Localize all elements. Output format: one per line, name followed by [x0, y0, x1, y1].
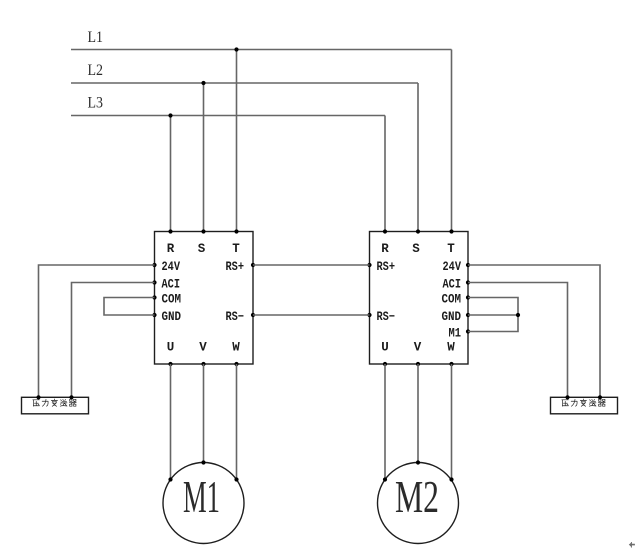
node U2 pin W [449, 362, 453, 366]
node U2 pin T [449, 229, 453, 233]
node U1 pin V [201, 362, 205, 366]
wire U1 pin U to motor M1 [170, 364, 172, 480]
wire L2 [71, 82, 418, 84]
wire L1 to U1 pin T [236, 50, 238, 232]
node U2 pin U [383, 362, 387, 366]
pin label RS+ (U1) [226, 260, 245, 274]
node U1 pin RS- [251, 313, 255, 317]
node U1 pin T [234, 229, 238, 233]
label 压 (PT1) [33, 400, 40, 406]
node U2 pin RS- [367, 313, 371, 317]
pin label U (U2) [381, 341, 389, 355]
wire L3 to U2 pin R [384, 116, 386, 232]
svg-text:S: S [198, 242, 206, 256]
node M2 terminal U [383, 477, 387, 481]
wire U1 ACI to PT1 [72, 283, 155, 398]
node U1 pin U [168, 362, 172, 366]
node U2 pin R [383, 229, 387, 233]
svg-text:24V: 24V [443, 260, 462, 274]
node U1 pin ACI [152, 280, 156, 284]
label 器 (PT2) [598, 399, 605, 406]
pressure transmitter PT1 body [22, 397, 89, 414]
wire L1 to U2 pin T [451, 50, 453, 232]
pin label RS- (U1) [226, 310, 245, 324]
pin label W (U1) [232, 341, 240, 355]
motor M1 body [163, 463, 244, 544]
svg-text:L3: L3 [88, 95, 104, 112]
pin label RS- (U2) [377, 310, 396, 324]
pin label 24V (U1) [162, 260, 181, 274]
node U1 pin R [168, 229, 172, 233]
wire L3 [71, 115, 385, 117]
node L3/R1 junction [168, 113, 172, 117]
node U1 pin GND [152, 313, 156, 317]
svg-text:V: V [199, 341, 207, 355]
wire L2 to U1 pin S [203, 83, 205, 232]
svg-text:W: W [447, 341, 455, 355]
label 力 (PT2) [571, 399, 577, 406]
pin label COM (U1) [162, 293, 182, 307]
pin label R (U2) [381, 242, 389, 256]
pin label ACI (U1) [162, 278, 181, 292]
node U2 pin M1 [466, 329, 470, 333]
svg-text:RS+: RS+ [377, 260, 396, 274]
svg-text:RS−: RS− [226, 310, 245, 324]
label 力 (PT1) [42, 399, 48, 406]
svg-text:S: S [412, 242, 420, 256]
label M2 [395, 471, 439, 522]
wire U2 COM jumper [468, 298, 518, 332]
motor M2 body [378, 463, 459, 544]
inverter U2 body [370, 232, 469, 365]
pin label R (U1) [167, 242, 175, 256]
node U2 pin COM [466, 295, 470, 299]
svg-text:RS+: RS+ [226, 260, 245, 274]
svg-text:T: T [232, 242, 240, 256]
node U1 pin COM [152, 295, 156, 299]
svg-text:M1: M1 [449, 327, 462, 341]
svg-text:M2: M2 [395, 471, 439, 522]
node PT2 24V terminal [598, 395, 602, 399]
node PT2 ACI terminal [565, 395, 569, 399]
svg-text:COM: COM [442, 293, 462, 307]
label 变 (PT2) [580, 399, 586, 406]
label 器 (PT1) [69, 399, 76, 406]
node U1 pin W [234, 362, 238, 366]
node M1 terminal W [234, 477, 238, 481]
pin label T (U2) [447, 242, 455, 256]
svg-text:24V: 24V [162, 260, 181, 274]
node M1 terminal V [201, 460, 205, 464]
node U2 pin 24V [466, 263, 470, 267]
node PT1 ACI terminal [69, 395, 73, 399]
svg-text:W: W [232, 341, 240, 355]
wire U2 ACI to PT2 [468, 283, 568, 398]
wire L3 to U1 pin R [170, 116, 172, 232]
wire L1 [71, 49, 452, 51]
node U2 pin ACI [466, 280, 470, 284]
node M1 terminal U [168, 477, 172, 481]
label 压 (PT2) [562, 400, 569, 406]
pin label V (U2) [414, 341, 422, 355]
pin label GND (U2) [442, 310, 462, 324]
inverter U1 body [155, 232, 254, 365]
wire RS- link U1 to U2 [253, 314, 370, 316]
pin label S (U1) [198, 242, 206, 256]
wire U2 pin U to motor M2 [384, 364, 386, 480]
svg-text:R: R [167, 242, 175, 256]
label L3 [88, 95, 104, 112]
wire U2 pin V to motor M2 [417, 364, 419, 463]
pin label V (U1) [199, 341, 207, 355]
svg-text:COM: COM [162, 293, 182, 307]
pin label RS+ (U2) [377, 260, 396, 274]
svg-text:R: R [381, 242, 389, 256]
node U1 pin RS+ [251, 263, 255, 267]
svg-text:L2: L2 [88, 62, 104, 79]
wire U1 pin V to motor M1 [203, 364, 205, 463]
node M2 terminal V [416, 460, 420, 464]
pin label U (U1) [167, 341, 175, 355]
svg-text:ACI: ACI [162, 278, 181, 292]
pin label 24V (U2) [443, 260, 462, 274]
wire U1 COM-GND jumper [104, 298, 155, 316]
pin label ACI (U2) [443, 278, 462, 292]
node COM/GND/M1 junction [516, 313, 520, 317]
label 送 (PT1) [60, 400, 67, 407]
wire U2 24V to PT2 [468, 265, 600, 397]
wire U2 pin W to motor M2 [451, 364, 453, 480]
node U2 pin RS+ [367, 263, 371, 267]
label M1 [183, 471, 220, 522]
label L1 [88, 29, 104, 46]
pin label GND (U1) [162, 310, 182, 324]
svg-text:T: T [447, 242, 455, 256]
svg-text:RS−: RS− [377, 310, 396, 324]
node U1 pin S [201, 229, 205, 233]
node U2 pin V [416, 362, 420, 366]
svg-text:GND: GND [442, 310, 462, 324]
pressure transmitter PT2 body [551, 397, 618, 414]
node U1 pin 24V [152, 263, 156, 267]
cursor arrow bottom-right [629, 542, 635, 548]
label 送 (PT2) [589, 400, 596, 407]
wire U1 pin W to motor M1 [236, 364, 238, 480]
wire L2 to U2 pin S [417, 83, 419, 232]
node U2 pin GND [466, 313, 470, 317]
node L2/S1 junction [201, 81, 205, 85]
svg-text:U: U [167, 341, 175, 355]
svg-text:GND: GND [162, 310, 182, 324]
svg-text:M1: M1 [183, 471, 220, 522]
node U2 pin S [416, 229, 420, 233]
svg-text:ACI: ACI [443, 278, 462, 292]
wire U1 24V to PT1 [39, 265, 155, 397]
pin label COM (U2) [442, 293, 462, 307]
pin label W (U2) [447, 341, 455, 355]
wire RS+ link U1 to U2 [253, 264, 370, 266]
svg-text:U: U [381, 341, 389, 355]
pin label T (U1) [232, 242, 240, 256]
wire U2 GND jumper [468, 314, 518, 316]
label 变 (PT1) [51, 399, 57, 406]
label L2 [88, 62, 104, 79]
pin label S (U2) [412, 242, 420, 256]
node PT1 24V terminal [36, 395, 40, 399]
pin label M1 (U2) [449, 327, 462, 341]
node L1/T1 junction [234, 47, 238, 51]
svg-text:L1: L1 [88, 29, 104, 46]
svg-text:V: V [414, 341, 422, 355]
node M2 terminal W [449, 477, 453, 481]
